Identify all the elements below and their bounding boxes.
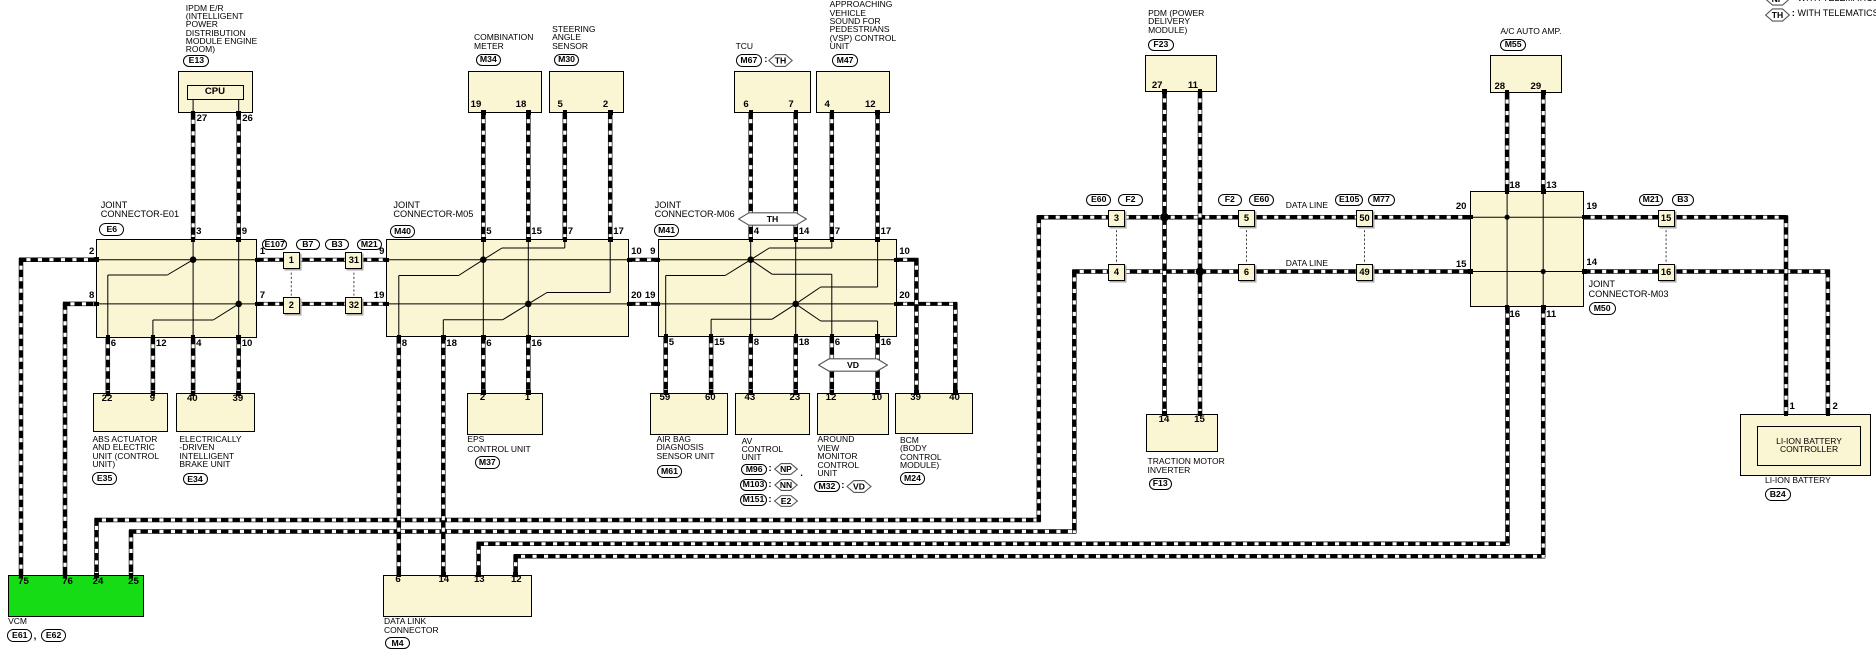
svg-text:E2: E2 [780, 496, 791, 506]
svg-text:TH: TH [767, 214, 779, 224]
svg-text:VD: VD [847, 360, 859, 370]
svg-text:NN: NN [780, 480, 792, 490]
svg-text:TH: TH [775, 55, 787, 65]
svg-text:VD: VD [853, 482, 865, 492]
svg-text:TH: TH [1772, 10, 1783, 20]
svg-text:NP: NP [780, 464, 792, 474]
svg-text:NP: NP [1772, 0, 1784, 4]
